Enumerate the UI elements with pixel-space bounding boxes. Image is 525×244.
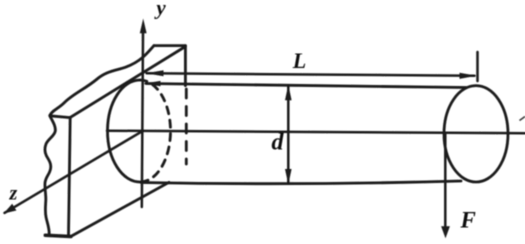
wall hidden right edge (dashed behind shaft) bbox=[185, 89, 188, 164]
d top arrowhead bbox=[285, 85, 292, 101]
wall front-bottom edge (diagonal) bbox=[71, 182, 169, 236]
z-axis line bbox=[5, 131, 142, 213]
wall wavy broken left edge bbox=[45, 116, 55, 235]
wall right edge bbox=[184, 46, 187, 86]
svg-text:L: L bbox=[292, 48, 306, 73]
shaft root circle, visible left half bbox=[108, 80, 140, 182]
wall left broken cap bbox=[50, 116, 70, 118]
force F line bbox=[444, 134, 447, 230]
dimension line L bbox=[147, 73, 475, 75]
shaft top generator line bbox=[146, 84, 466, 88]
svg-text:y: y bbox=[153, 0, 166, 20]
shaft root circle, hidden right half (dashed) bbox=[140, 80, 171, 182]
L left arrowhead bbox=[146, 70, 164, 76]
wall front-top edge (diagonal) bbox=[70, 47, 185, 118]
y-axis line bbox=[142, 33, 143, 207]
svg-text:d: d bbox=[272, 130, 285, 156]
dimension line d bbox=[287, 86, 290, 183]
F arrowhead bbox=[441, 226, 450, 238]
shaft center axis line bbox=[107, 131, 525, 134]
z-axis arrowhead bbox=[4, 204, 17, 214]
svg-text:z: z bbox=[9, 183, 18, 205]
wall top edge bbox=[154, 44, 185, 47]
top generator left arrowhead bbox=[143, 81, 160, 86]
wall front-left edge bbox=[69, 118, 71, 235]
d bottom arrowhead bbox=[285, 169, 292, 184]
L right arrowhead bbox=[460, 73, 477, 79]
y-axis arrowhead bbox=[140, 19, 147, 34]
stray scan mark at right edge bbox=[520, 117, 525, 121]
extension tick at right end of L bbox=[476, 52, 479, 81]
shaft bottom generator line bbox=[141, 181, 461, 184]
shaft end ellipse bbox=[444, 86, 508, 182]
wall broken top edge (S-curve) bbox=[50, 46, 154, 116]
svg-text:F: F bbox=[460, 208, 476, 233]
wall bottom broken cap bbox=[45, 235, 71, 236]
